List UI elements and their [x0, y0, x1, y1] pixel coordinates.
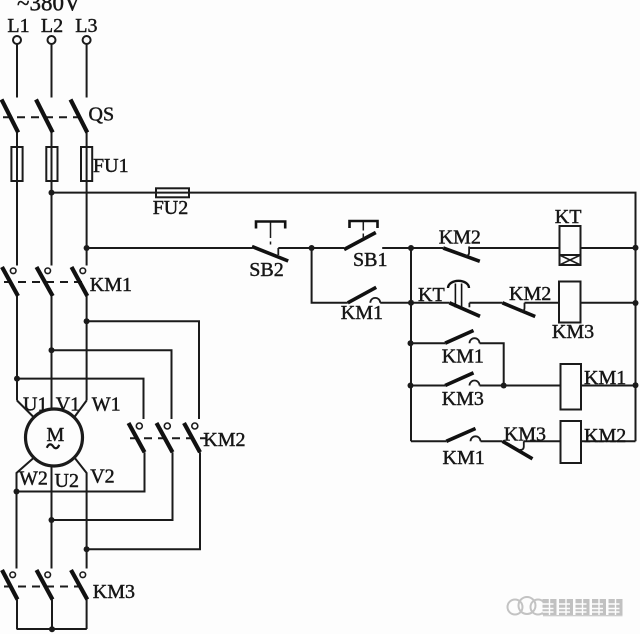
svg-text:W1: W1 — [92, 394, 121, 416]
svg-text:SB1: SB1 — [353, 249, 387, 271]
svg-text:L3: L3 — [75, 15, 97, 37]
svg-text:L1: L1 — [7, 15, 29, 37]
svg-text:KM1: KM1 — [443, 447, 485, 469]
svg-text:KM2: KM2 — [584, 425, 626, 447]
svg-text:W2: W2 — [19, 468, 48, 490]
svg-text:KM3: KM3 — [93, 581, 135, 603]
svg-text:KM1: KM1 — [341, 302, 383, 324]
svg-text:KT: KT — [555, 206, 582, 228]
svg-text:V1: V1 — [56, 394, 80, 416]
svg-text:KT: KT — [418, 284, 445, 306]
svg-text:KM2: KM2 — [203, 429, 245, 451]
svg-text:M: M — [47, 424, 65, 446]
svg-text:KM3: KM3 — [442, 388, 484, 410]
svg-text:L2: L2 — [41, 15, 63, 37]
svg-text:QS: QS — [89, 104, 115, 126]
svg-text:SB2: SB2 — [249, 259, 283, 281]
svg-text:KM3: KM3 — [504, 424, 546, 446]
svg-text:KM3: KM3 — [552, 321, 594, 343]
svg-text:FU2: FU2 — [153, 197, 189, 219]
svg-text:KM2: KM2 — [439, 227, 481, 249]
svg-text:KM1: KM1 — [90, 274, 132, 296]
svg-text:KM1: KM1 — [584, 367, 626, 389]
svg-text:U2: U2 — [55, 470, 79, 492]
svg-text:U1: U1 — [23, 394, 47, 416]
svg-text:FU1: FU1 — [93, 155, 129, 177]
svg-text:KM1: KM1 — [442, 346, 484, 368]
svg-text:~380V: ~380V — [17, 0, 81, 16]
svg-text:V2: V2 — [90, 466, 114, 488]
svg-text:KM2: KM2 — [509, 283, 551, 305]
